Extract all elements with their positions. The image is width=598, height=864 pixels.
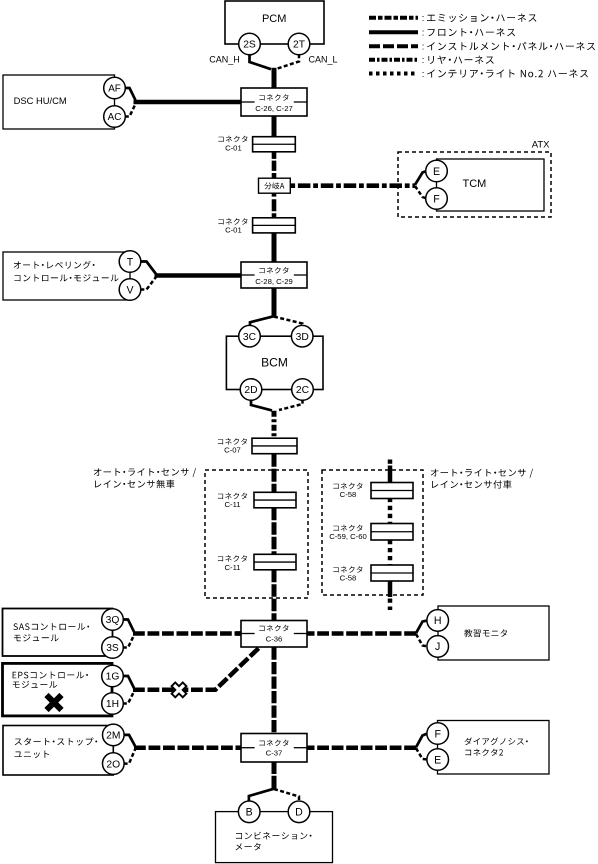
wire trunk PCM junction to connector C-26/C-27 [272, 68, 277, 89]
wire from 2C to lower BCM junction (dashed) [279, 400, 303, 410]
left sensor dashed group box (no auto light sensor) [205, 470, 308, 598]
pin 3S [102, 637, 124, 659]
svg-text:2C: 2C [296, 385, 310, 396]
svg-text:C-11: C-11 [224, 500, 240, 509]
svg-text:1H: 1H [106, 699, 119, 710]
pin F [426, 188, 448, 210]
right sensor dashed group box (with auto light sensor) [322, 470, 423, 595]
wire junction to F [416, 734, 427, 748]
wire EPS junction to connector C-36 (instrument panel) [133, 648, 259, 690]
wire connector C-28/C-29 to BCM junction [272, 287, 277, 317]
svg-text:C-28, C-29: C-28, C-29 [255, 277, 293, 286]
svg-text:2T: 2T [293, 40, 306, 51]
start stop unit box [3, 726, 113, 776]
wire connector C-01 lower to connector C-28/C-29 [272, 232, 277, 263]
EPS control module box [3, 663, 113, 716]
wire start-stop junction to connector C-37 (instrument panel) [134, 745, 242, 750]
wire connector C-37 to diagnosis junction [306, 745, 416, 750]
PCM box U1 [225, 1, 324, 44]
pin 2M [103, 724, 125, 746]
wire CAN_H from 2S to junction [250, 54, 272, 69]
svg-text:TCM: TCM [463, 178, 487, 190]
svg-text:3C: 3C [243, 332, 257, 343]
wire from T to auto leveling junction [140, 262, 156, 275]
svg-text:E: E [433, 166, 440, 178]
connector C-59/C-60 [329, 524, 413, 541]
branch A box [259, 178, 291, 193]
X mark on EPS wire [172, 682, 187, 697]
wire connector C-11 upper to connector C-11 lower [272, 508, 277, 555]
wire auto leveling junction to connector C-28/C-29 [155, 273, 243, 278]
wire from 1G to EPS junction [123, 676, 134, 688]
pin 1G [102, 665, 124, 687]
connector C-28/C-29 box [241, 262, 307, 288]
wire connector C-59/C-60 to connector C-58 lower (dots) [388, 540, 393, 566]
wire connector C-01 upper to branch A (emission) [272, 152, 277, 178]
wire from 2O to start-stop junction (dashed) [124, 750, 135, 764]
pin AC [104, 106, 126, 128]
legend rear harness [369, 55, 494, 66]
X mark inside EPS box [47, 695, 62, 710]
connector C-01 lower [218, 218, 295, 235]
wire from AC to DSC junction (dashed) [125, 104, 136, 117]
svg-text:2M: 2M [106, 731, 120, 742]
wire from 2M to start-stop junction [124, 735, 135, 746]
pin E2 [427, 749, 449, 771]
wire junction to J (dashed) [416, 634, 427, 646]
svg-text:CAN_L: CAN_L [308, 54, 337, 64]
svg-text:D: D [295, 807, 303, 819]
connector C-36 box [241, 621, 307, 648]
pin H [427, 610, 449, 632]
svg-text:F: F [434, 728, 441, 740]
pin 2O [103, 753, 125, 775]
svg-text::: : [422, 42, 425, 53]
svg-text:3D: 3D [296, 332, 309, 343]
svg-text:1G: 1G [106, 672, 120, 683]
svg-text::: : [422, 55, 425, 66]
svg-text:C-11: C-11 [224, 563, 240, 572]
svg-text:3Q: 3Q [106, 615, 120, 626]
svg-text:3S: 3S [106, 643, 119, 654]
connector C-37 box [241, 734, 307, 763]
node CAN_L label [308, 54, 337, 64]
wire meter junction to B [249, 789, 274, 802]
svg-text:C-37: C-37 [266, 748, 283, 757]
svg-text:PCM: PCM [262, 13, 286, 25]
diagnosis connector 2 box [438, 721, 550, 775]
wire below connector C-58 lower [388, 581, 393, 598]
wire C-58 line top dot [388, 460, 393, 464]
wire from 3S to SAS junction (dashed) [123, 635, 134, 647]
pin V [119, 279, 141, 301]
svg-text:C-01: C-01 [225, 225, 242, 234]
svg-text:AF: AF [108, 84, 121, 95]
wire from 1H to EPS junction (dashed) [123, 692, 134, 704]
wire connector C-26/C-27 to connector C-01 upper [272, 115, 277, 137]
wire CAN_L from 2T to junction (dashed) [276, 54, 299, 69]
pin F2 [427, 723, 449, 745]
ATX dashed group box [398, 140, 551, 217]
wire branch A to connector C-01 lower (emission) [272, 193, 277, 218]
pin AF [104, 77, 126, 99]
wire junction to H [416, 620, 427, 633]
pin B [238, 801, 260, 823]
pin 3D [291, 325, 313, 347]
svg-text::: : [422, 69, 425, 80]
svg-text:ATX: ATX [532, 140, 550, 151]
node CAN_H label [209, 54, 240, 64]
wire connector C-58 upper to connector C-59/C-60 (dots) [388, 498, 393, 524]
legend interior light No.2 harness [369, 69, 588, 80]
training monitor box [438, 606, 549, 660]
svg-text:C-07: C-07 [224, 445, 241, 454]
connector C-01 upper [218, 136, 295, 153]
wire from 3Q to SAS junction [123, 620, 134, 632]
wire connector C-11 lower to connector C-36 [272, 570, 277, 621]
label auto light sensor / rain sensor with [431, 469, 533, 489]
pin E [426, 160, 448, 182]
wire TCM junction to E [415, 171, 427, 185]
svg-text:C-58: C-58 [340, 573, 357, 582]
wire connector C-36 to connector C-37 [272, 648, 277, 734]
wire connector C-07 to connector C-11 upper [272, 454, 277, 493]
auto leveling control module box [3, 252, 130, 300]
wire connector C-37 to meter junction [272, 761, 277, 789]
svg-text:C-26, C-27: C-26, C-27 [255, 104, 293, 113]
pin 1H [102, 693, 124, 715]
svg-text:BCM: BCM [261, 356, 288, 370]
pin 2S [239, 33, 261, 55]
svg-text:C-01: C-01 [225, 143, 242, 152]
connector C-58 lower [333, 565, 413, 582]
wire junction to E (dashed) [416, 748, 427, 759]
legend front harness [369, 28, 515, 39]
svg-text:E: E [434, 754, 441, 766]
wire branch A to TCM junction (emission) [290, 183, 415, 188]
pin 2D [240, 379, 262, 401]
legend emission harness [369, 13, 536, 24]
wire TCM junction to F (dashed) [415, 186, 427, 199]
pin 2C [292, 379, 314, 401]
wire C-58 line bottom dots [388, 599, 393, 611]
svg-text::: : [422, 28, 425, 39]
svg-text::: : [422, 13, 425, 24]
wire DSC junction to connector C-26/C-27 [134, 100, 243, 105]
connector C-07 [218, 438, 297, 454]
pin J [427, 636, 449, 658]
wire BCM junction to 3C [250, 316, 274, 326]
DSC HU/CM box [3, 75, 115, 129]
combination meter box [216, 812, 333, 863]
svg-text:T: T [127, 256, 134, 268]
connector C-11 upper [218, 492, 296, 509]
svg-text:2S: 2S [243, 40, 256, 51]
pin 3C [239, 325, 261, 347]
wire meter junction to D (dashed) [274, 789, 299, 802]
svg-text:J: J [435, 641, 440, 653]
pin 3Q [102, 609, 124, 631]
svg-text:B: B [246, 807, 253, 819]
label auto light sensor / rain sensor without [94, 468, 196, 488]
svg-text:AC: AC [108, 112, 122, 123]
svg-text:DSC HU/CM: DSC HU/CM [14, 95, 67, 106]
pin T [119, 251, 141, 273]
svg-text:C-59, C-60: C-59, C-60 [329, 532, 367, 541]
wire from V to auto leveling junction (dashed) [140, 277, 156, 290]
svg-text:H: H [434, 615, 442, 627]
connector C-26/C-27 box [241, 88, 307, 116]
pin D [288, 801, 310, 823]
wire BCM to connector C-07 (rear harness) [272, 411, 277, 438]
wire SAS junction to connector C-36 (instrument panel) [133, 631, 242, 636]
svg-text:V: V [126, 284, 134, 296]
connector C-11 lower [218, 554, 296, 572]
wire from 2D to lower BCM junction [251, 400, 272, 411]
svg-text:2D: 2D [244, 385, 257, 396]
wire from AF to DSC junction [125, 88, 136, 100]
connector C-58 upper [333, 483, 413, 499]
TCM box [437, 159, 545, 211]
svg-text:CAN_H: CAN_H [209, 54, 240, 64]
wire connector C-36 to training monitor junction [306, 631, 416, 636]
wire into connector C-58 upper [388, 466, 393, 483]
svg-text:C-58: C-58 [340, 490, 357, 499]
legend instrument panel harness [369, 42, 595, 53]
pin 2T [288, 33, 310, 55]
svg-text:C-36: C-36 [266, 634, 283, 643]
SAS control module box [3, 609, 113, 657]
BCM box [226, 336, 323, 389]
wire BCM junction to 3D (dashed) [274, 317, 302, 327]
svg-text:F: F [433, 193, 440, 205]
svg-text:2O: 2O [106, 759, 120, 770]
